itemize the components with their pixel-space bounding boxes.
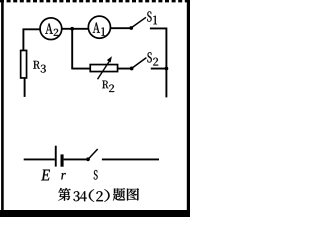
bottom border bar (0, 210, 190, 217)
caption: 第34（2）题图 (58, 188, 139, 202)
switch S pivot node (86, 157, 90, 161)
rheostat R2 body (90, 65, 117, 72)
wire S2 to right rail (151, 68, 167, 70)
right rail vertical wire (165, 28, 167, 98)
wire top-left horizontal to ammeter A2 (23, 28, 41, 30)
wire to rheostat R2 (71, 68, 90, 70)
wire switch S to right (102, 158, 159, 160)
label E (emf) (41, 170, 50, 181)
label R2 (102, 81, 114, 92)
switch S2 blade (132, 58, 146, 69)
junction node between A2 and A1 (70, 27, 74, 31)
switch S1 pivot node (129, 26, 133, 30)
resistor R3 body (21, 50, 27, 77)
label S1 (147, 11, 157, 24)
battery short plate (negative) (61, 154, 64, 166)
wire battery to switch S (64, 158, 87, 160)
wire junction down to R2 branch (71, 29, 73, 69)
wire R2 to switch S2 (118, 68, 131, 70)
label S2 (147, 52, 158, 65)
label r (internal resistance) (61, 173, 65, 179)
top dashed border (0, 0, 187, 2)
wire A2 to A1 (62, 28, 88, 30)
wire S1 to right rail corner (150, 27, 167, 29)
left border line (1, 0, 4, 210)
label S (94, 170, 98, 180)
battery long plate (positive) (55, 146, 57, 167)
label R3 (33, 61, 46, 73)
ammeter A2 (40, 18, 62, 40)
wire vertical from top-left corner down to R3 (22, 29, 24, 51)
rheostat R2 arrow (98, 56, 112, 79)
right border bar (187, 0, 190, 217)
wire battery left lead (24, 158, 55, 160)
junction node S2 wire and right rail (165, 67, 169, 71)
wire A1 to switch S1 (111, 27, 130, 29)
switch S blade (88, 149, 97, 159)
wire below R3 (24, 78, 26, 97)
ammeter A1 (88, 16, 110, 38)
switch S1 blade (132, 17, 147, 27)
switch S2 pivot node (130, 67, 134, 71)
